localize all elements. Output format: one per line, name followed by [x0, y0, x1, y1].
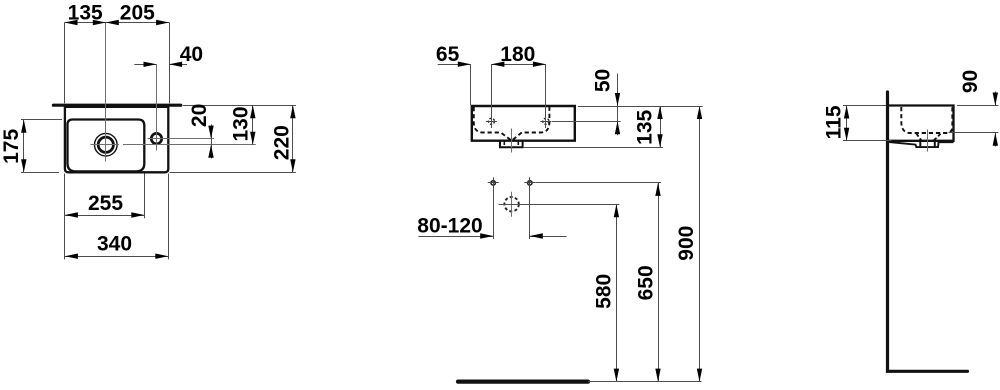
svg-text:205: 205 — [120, 1, 155, 24]
svg-text:135: 135 — [68, 1, 103, 24]
svg-text:180: 180 — [500, 43, 535, 66]
svg-text:80-120: 80-120 — [417, 214, 482, 237]
svg-text:90: 90 — [959, 70, 982, 93]
svg-text:900: 900 — [675, 226, 698, 261]
svg-text:115: 115 — [823, 105, 846, 139]
svg-text:175: 175 — [0, 129, 23, 164]
svg-text:130: 130 — [229, 106, 252, 141]
svg-text:220: 220 — [270, 125, 293, 160]
svg-text:580: 580 — [592, 274, 615, 309]
svg-text:40: 40 — [180, 43, 203, 66]
svg-text:340: 340 — [97, 233, 132, 256]
svg-text:65: 65 — [436, 43, 460, 66]
svg-text:135: 135 — [633, 109, 656, 144]
svg-text:650: 650 — [635, 265, 658, 300]
svg-text:20: 20 — [188, 104, 211, 127]
svg-text:255: 255 — [88, 192, 123, 215]
svg-text:50: 50 — [592, 69, 615, 92]
